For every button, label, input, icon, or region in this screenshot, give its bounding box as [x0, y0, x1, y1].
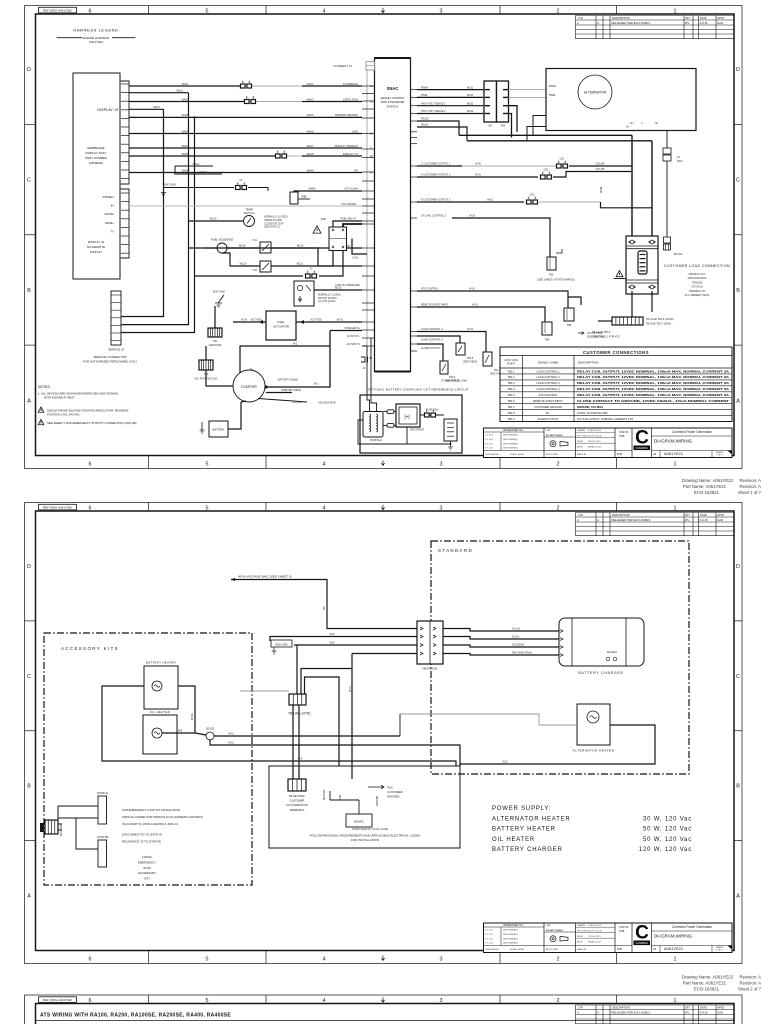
alternator output drops: [631, 135, 633, 236]
svg-text:W-14: W-14: [241, 318, 248, 322]
load control wires: [417, 332, 486, 353]
svg-text:UNPLUG CONNECTOR FROM PL(G) IN: UNPLUG CONNECTOR FROM PL(G) IN HARNESS (…: [122, 815, 203, 819]
svg-text:1: 1: [674, 956, 677, 962]
svg-text:5: 5: [206, 956, 209, 962]
svg-text:R.OTT 5-11-15: R.OTT 5-11-15: [588, 930, 603, 932]
svg-text:(WHEN REQD BY LOCAL CODE): (WHEN REQD BY LOCAL CODE): [352, 828, 388, 831]
svg-text:ENG GND: ENG GND: [164, 183, 176, 187]
svg-text:(SEE TABLE 1 FOR KIT): (SEE TABLE 1 FOR KIT): [592, 336, 620, 339]
svg-text:ENG GND: ENG GND: [213, 290, 225, 294]
svg-text:MEMBRANE: MEMBRANE: [87, 146, 104, 150]
svg-text:1 OF 7: 1 OF 7: [716, 455, 723, 457]
svg-text:B: B: [736, 288, 740, 294]
svg-text:XFMR B+G: XFMR B+G: [370, 439, 382, 442]
svg-text:CAD: CAD: [546, 924, 551, 927]
SNAC right pin strip: [411, 89, 418, 91]
svg-text:3: 3: [440, 506, 443, 512]
svg-text:REMOTE START INPUT: REMOTE START INPUT: [533, 399, 563, 403]
wire W411 stub: [129, 92, 189, 94]
svg-text:2: 2: [557, 9, 560, 15]
svg-text:A: A: [577, 518, 579, 522]
svg-text:APVD: APVD: [717, 16, 724, 20]
stop wires: [58, 806, 98, 818]
svg-text:AC2(-): AC2(-): [512, 636, 520, 639]
svg-text:W97: W97: [346, 246, 351, 248]
svg-text:5: 5: [206, 461, 209, 467]
svg-text:A061YE21: A061YE21: [664, 946, 684, 951]
svg-text:ENG GND: ENG GND: [275, 642, 287, 646]
svg-text:Drawing Name: A061YE22: Drawing Name: A061YE22: [682, 975, 734, 980]
svg-text:WITH INTEGRATED: WITH INTEGRATED: [381, 100, 405, 104]
svg-text:W129: W129: [210, 217, 217, 221]
svg-text:DRAWN: DRAWN: [577, 924, 585, 927]
svg-text:8 CUSTOMER OUTPUT 3: 8 CUSTOMER OUTPUT 3: [421, 199, 451, 202]
svg-text:6AWG/250 MCM: 6AWG/250 MCM: [688, 277, 707, 280]
svg-text:24 LOAD CONTROL 1: 24 LOAD CONTROL 1: [421, 215, 447, 218]
svg-text:TB1-1: TB1-1: [507, 369, 515, 373]
svg-text:A: A: [597, 1010, 599, 1014]
svg-text:PLUG PART IN CONN A SHOWN 4 JO: PLUG PART IN CONN A SHOWN 4 JOIN C4: [122, 822, 178, 826]
svg-text:DIM IN MM [IN]: DIM IN MM [IN]: [503, 934, 518, 936]
svg-text:MADE IN: MADE IN: [577, 453, 587, 456]
wires below fuel relay: [189, 248, 334, 266]
wires heat/bchg to battery charger: [443, 629, 559, 632]
wire W407: [129, 147, 362, 149]
svg-text:RX: RX: [354, 168, 358, 172]
customer load circuit breaker CB1: [626, 236, 658, 294]
svg-text:12VDC, 5A PROTECTED: 12VDC, 5A PROTECTED: [577, 411, 608, 415]
svg-text:ALTERNATOR HEATER: ALTERNATOR HEATER: [573, 749, 615, 753]
svg-text:W10A: W10A: [191, 713, 194, 720]
svg-text:POSITION 175C 240 VAC: POSITION 175C 240 VAC: [47, 412, 80, 416]
wire W413 stub: [129, 108, 164, 110]
svg-text:DFT CHKD: DFT CHKD: [577, 930, 588, 932]
charging circuit wires: [383, 412, 396, 426]
wire W405: [129, 116, 362, 118]
svg-text:DFT: DFT: [685, 513, 690, 517]
svg-text:UNSPECIFIED TOL: UNSPECIFIED TOL: [503, 430, 524, 432]
connector pair: [425, 413, 430, 417]
svg-text:[BCHG]: [BCHG]: [674, 253, 683, 256]
svg-text:CB2: CB2: [544, 169, 549, 172]
svg-text:C: C: [635, 923, 649, 944]
svg-text:CLOSE CONTACT TO GROUND, 12VDC: CLOSE CONTACT TO GROUND, 12VDC SIGNAL, 1…: [577, 399, 729, 403]
svg-text:FOLLOW REGIONAL REQUIREMENTS A: FOLLOW REGIONAL REQUIREMENTS AND APPLICA…: [310, 834, 421, 838]
svg-text:FIELD+: FIELD+: [421, 118, 430, 121]
svg-text:C: C: [736, 674, 740, 680]
svg-text:DATE: DATE: [700, 513, 707, 517]
svg-text:LTR: LTR: [578, 1006, 583, 1010]
ATS control wire: [417, 291, 568, 308]
svg-text:LOW OIL PRESSURE: LOW OIL PRESSURE: [335, 284, 360, 287]
svg-text:W-62: W-62: [487, 199, 493, 202]
svg-text:W-30: W-30: [469, 288, 475, 291]
svg-text:DISPLAY WAKEUP: DISPLAY WAKEUP: [335, 144, 359, 148]
svg-text:FS2: FS2: [253, 269, 258, 272]
svg-text:STATUS:: STATUS:: [619, 926, 629, 929]
svg-text:APVD: APVD: [717, 513, 724, 517]
connector J26/P26 pair: [484, 81, 497, 122]
svg-text:A053E929: A053E929: [89, 161, 103, 165]
svg-text:X.X ±0.5: X.X ±0.5: [485, 943, 494, 945]
svg-text:X.X ±0.5: X.X ±0.5: [485, 443, 494, 445]
svg-text:W401: W401: [182, 82, 189, 86]
svg-text:KIT): KIT): [144, 877, 149, 881]
alt heater wires: [400, 714, 577, 725]
svg-text:Cummins Power Generation: Cummins Power Generation: [672, 925, 712, 929]
svg-text:APVD: APVD: [717, 1006, 724, 1010]
relay K2: [260, 261, 271, 272]
svg-text:BATTERY CHARGER: BATTERY CHARGER: [492, 847, 563, 853]
svg-text:W407: W407: [307, 144, 314, 148]
svg-text:B: B: [27, 784, 31, 790]
svg-text:PWM-: PWM-: [421, 94, 428, 97]
svg-text:CW-165: CW-165: [596, 168, 605, 171]
svg-text:W409: W409: [307, 168, 314, 172]
svg-text:AC CONNECTION: AC CONNECTION: [286, 803, 308, 807]
svg-text:THIRD ANGLE: THIRD ANGLE: [485, 948, 499, 951]
svg-text:(SEE TABLE): (SEE TABLE): [463, 361, 478, 364]
svg-text:(CUSTOMER: (CUSTOMER: [387, 790, 403, 794]
svg-text:50 W, 120 Vac: 50 W, 120 Vac: [643, 837, 692, 843]
service connector J2: [111, 291, 121, 345]
svg-text:A: A: [27, 398, 31, 404]
svg-text:W-2: W-2: [314, 383, 319, 386]
third angle projection symbol: [550, 936, 556, 942]
svg-text:RELAY COIL OUTPUT, 12VDC NOMIN: RELAY COIL OUTPUT, 12VDC NOMINAL, 100mA …: [577, 387, 729, 391]
svg-text:SEE SHEET 2 FOR EMERGENCY STOP: SEE SHEET 2 FOR EMERGENCY STOP KIT CONNE…: [47, 421, 137, 425]
ACCESSORY KITS dashed group box: [44, 633, 252, 885]
customer connections table: [500, 347, 732, 422]
svg-text:HIGH VOLTAGE WAC (SEE SHEET 3): HIGH VOLTAGE WAC (SEE SHEET 3): [238, 575, 292, 579]
svg-text:TB2: TB2: [549, 274, 554, 277]
svg-text:RELEASED PER ECO-163821: RELEASED PER ECO-163821: [612, 21, 651, 25]
svg-text:APVD SIGN: APVD SIGN: [546, 948, 558, 951]
svg-text:DESCRIPTION: DESCRIPTION: [612, 1006, 630, 1010]
svg-text:TB1-2: TB1-2: [507, 375, 515, 379]
svg-text:DIAGRAM,WIRING: DIAGRAM,WIRING: [654, 439, 693, 444]
svg-text:CONNECT J1: CONNECT J1: [333, 64, 352, 68]
svg-text:RELEASED PER ECO-163821: RELEASED PER ECO-163821: [612, 1010, 651, 1014]
svg-text:|÷|: |÷|: [404, 415, 409, 421]
svg-text:SCALE: NONE: SCALE: NONE: [510, 453, 525, 456]
TB-LINE heater tap: [289, 694, 306, 705]
svg-text:5: 5: [206, 9, 209, 15]
sheet number label box: [39, 504, 77, 510]
svg-text:LTR: LTR: [578, 16, 583, 20]
svg-text:RELAY COIL OUTPUT, 12VDC NOMIN: RELAY COIL OUTPUT, 12VDC NOMINAL, 100mA …: [577, 369, 729, 373]
svg-text:PUB: PUB: [617, 453, 622, 456]
svg-text:B+: B+: [111, 204, 115, 208]
svg-text:W405: W405: [307, 113, 314, 117]
svg-text:6-9-15: 6-9-15: [700, 1010, 709, 1014]
svg-text:SERVICE-J2: SERVICE-J2: [108, 348, 125, 352]
svg-text:ECO-163821: ECO-163821: [694, 987, 720, 992]
svg-text:D: D: [736, 564, 740, 570]
svg-text:DATE: DATE: [700, 1006, 707, 1010]
svg-text:W480: W480: [309, 187, 316, 191]
svg-text:40 C AMBIENT (MAX): 40 C AMBIENT (MAX): [685, 294, 710, 297]
svg-text:PUB: PUB: [619, 929, 625, 933]
svg-text:DFT CHKD: DFT CHKD: [577, 435, 588, 437]
connector pair F3: [306, 274, 311, 278]
svg-text:ACT POS: ACT POS: [310, 318, 322, 322]
svg-text:LTR: LTR: [578, 513, 583, 517]
svg-text:AT 0 PSI @ ENG: AT 0 PSI @ ENG: [318, 300, 336, 303]
svg-text:W233: W233: [467, 102, 474, 105]
svg-text:6-9-15: 6-9-15: [700, 21, 709, 25]
svg-text:AC INPUT L: AC INPUT L: [347, 335, 361, 338]
inline fuse F1: [663, 148, 671, 154]
svg-text:TB-LOAD TB1-8 (LOAD): TB-LOAD TB1-8 (LOAD): [646, 318, 674, 321]
svg-text:SCALE: NONE: SCALE: NONE: [510, 948, 525, 951]
gray sense wire: [129, 205, 362, 207]
svg-text:DIM IN MM [IN]: DIM IN MM [IN]: [503, 938, 518, 940]
svg-text:POWERING: POWERING: [343, 82, 358, 86]
svg-text:DATE: DATE: [700, 16, 707, 20]
svg-text:HIGH VOLT SENSE 1: HIGH VOLT SENSE 1: [421, 102, 446, 105]
customer output wires: [417, 165, 462, 167]
display module U1: [73, 73, 120, 279]
svg-text:RELAY COIL OUTPUT, 12VDC NOMIN: RELAY COIL OUTPUT, 12VDC NOMINAL, 100mA …: [577, 393, 729, 397]
svg-text:REF DWG A041Y902: REF DWG A041Y902: [43, 506, 72, 510]
title block: [484, 923, 733, 953]
svg-text:Sheet 2 of 7: Sheet 2 of 7: [738, 987, 762, 992]
svg-text:TB1-8: TB1-8: [507, 411, 515, 415]
svg-text:JPL: JPL: [685, 21, 690, 25]
pressure switch S2: [294, 281, 314, 306]
svg-text:TB1-4: TB1-4: [507, 387, 515, 391]
svg-text:AC1(+): AC1(+): [512, 628, 520, 631]
svg-text:W96: W96: [321, 217, 327, 221]
svg-text:W403: W403: [182, 97, 189, 101]
svg-text:DO NOT SCALE: DO NOT SCALE: [546, 434, 563, 437]
svg-text:STANDARD: STANDARD: [438, 548, 473, 553]
svg-text:W232: W232: [467, 94, 474, 97]
alternator heater HR1: [577, 704, 610, 745]
STOP-B terminal: [98, 840, 107, 867]
svg-text:UNSPECIFIED TOL: UNSPECIFIED TOL: [503, 925, 524, 927]
emergency stop connector plug: [40, 823, 44, 832]
svg-text:DIM IN MM [IN]: DIM IN MM [IN]: [503, 443, 518, 445]
svg-text:[STOP-B]: [STOP-B]: [97, 835, 108, 839]
wire W403: [129, 101, 244, 103]
svg-text:TB1-7: TB1-7: [507, 405, 515, 409]
sheet outer border: [25, 503, 743, 964]
svg-text:RELAY COIL OUTPUT, 12VDC NOMIN: RELAY COIL OUTPUT, 12VDC NOMINAL, 100mA …: [577, 381, 729, 385]
heater loop wiring: [102, 686, 456, 766]
svg-text:HEAT/BCHG: HEAT/BCHG: [423, 667, 438, 671]
svg-text:ALTERNATOR: ALTERNATOR: [584, 91, 607, 95]
heat/bchg terminal block TB2: [417, 621, 443, 664]
svg-text:TEMPER SENDER: TEMPER SENDER: [335, 113, 358, 117]
sheet outer border: [25, 6, 743, 469]
svg-text:120 W, 120 Vac: 120 W, 120 Vac: [639, 847, 692, 853]
svg-text:W231: W231: [467, 86, 474, 89]
svg-text:RELEASED PER ECO-163821: RELEASED PER ECO-163821: [612, 518, 651, 522]
eng gnd p2: [271, 640, 292, 647]
svg-text:W121: W121: [297, 262, 304, 266]
svg-text:W13: W13: [330, 642, 336, 645]
svg-text:GROUND, 15A MAX: GROUND, 15A MAX: [577, 405, 603, 409]
svg-text:2: 2: [557, 956, 560, 962]
svg-text:CUMMINS: CUMMINS: [635, 446, 648, 450]
svg-text:LOAD CONTROL 1: LOAD CONTROL 1: [536, 369, 560, 373]
TB8 positive block: [199, 360, 213, 370]
output relay RL2: [456, 343, 465, 355]
svg-text:A: A: [597, 21, 599, 25]
connector pair: [245, 100, 250, 104]
inline fuse BT2: [664, 237, 671, 243]
svg-text:1: 1: [674, 461, 677, 467]
svg-text:TB-5: TB-5: [387, 786, 393, 790]
svg-text:(ACCESSORY: (ACCESSORY: [138, 871, 157, 875]
svg-text:GROUND: GROUND: [377, 795, 379, 806]
battery charger A1: [559, 618, 644, 666]
svg-text:NO REMOTE: NO REMOTE: [87, 245, 105, 249]
coupler stubs: [387, 410, 394, 414]
transformer T1: [363, 412, 383, 438]
svg-text:A: A: [577, 21, 579, 25]
connector pair: [241, 84, 246, 88]
display connector pin strip upper: [121, 81, 129, 184]
svg-text:CHG SENSE: CHG SENSE: [341, 203, 356, 206]
svg-text:30 W, 120 Vac: 30 W, 120 Vac: [643, 816, 692, 822]
svg-text:THIRD ANGLE: THIRD ANGLE: [485, 453, 499, 456]
splice S10: [206, 732, 214, 740]
svg-text:6: 6: [89, 956, 92, 962]
long vertical wires: [205, 346, 207, 360]
svg-text:LOAD CONTROL 4: LOAD CONTROL 4: [421, 328, 443, 331]
svg-text:FUEL RELAY: FUEL RELAY: [340, 217, 356, 221]
svg-text:DIM IN MM [IN]: DIM IN MM [IN]: [503, 930, 518, 932]
svg-text:Part Name: A061YE21: Part Name: A061YE21: [683, 981, 727, 986]
svg-text:Cummins Power Generation: Cummins Power Generation: [672, 430, 712, 434]
svg-text:6: 6: [89, 461, 92, 467]
svg-text:A3: A3: [653, 452, 657, 456]
alternator flash relay K3: [290, 192, 298, 204]
svg-text:CUSTOMER CONNECTIONS: CUSTOMER CONNECTIONS: [583, 350, 649, 355]
svg-text:12V 3.5A OUTPUT. NOMINAL CURRE: 12V 3.5A OUTPUT. NOMINAL CURRENT 3.5A: [577, 417, 633, 421]
svg-text:BATTERY CABLE: BATTERY CABLE: [278, 379, 298, 382]
svg-text:WITH ENGINE AT REST: WITH ENGINE AT REST: [44, 395, 75, 399]
svg-text:W-31: W-31: [472, 304, 478, 307]
svg-text:W88: W88: [301, 195, 307, 199]
TB pointer note: [578, 332, 584, 335]
svg-text:W403: W403: [307, 97, 314, 101]
svg-text:AC3(GND): AC3(GND): [512, 644, 524, 647]
svg-text:W118: W118: [239, 244, 246, 248]
svg-text:X.X ±0.5: X.X ±0.5: [485, 448, 494, 450]
battery charging circuit box: [360, 395, 462, 453]
TB1 ground block: [208, 328, 222, 337]
svg-text:RELAY COIL OUTPUT, 12VDC NOMIN: RELAY COIL OUTPUT, 12VDC NOMINAL, 100mA …: [577, 375, 729, 379]
svg-text:DIM IN MM [IN]: DIM IN MM [IN]: [503, 448, 518, 450]
svg-text:C: C: [736, 178, 740, 184]
svg-text:OIL HEATER: OIL HEATER: [150, 710, 170, 714]
svg-text:(DC POSITIVE 12V): (DC POSITIVE 12V): [195, 378, 218, 381]
svg-text:RECONNECT J2 TO [STOP-B]: RECONNECT J2 TO [STOP-B]: [122, 840, 161, 844]
svg-text:SIGNAL: SIGNAL: [104, 212, 114, 216]
svg-text:ENGR: ENGR: [577, 936, 584, 938]
svg-text:STARTER CABLE: STARTER CABLE: [281, 389, 302, 392]
svg-text:X.X ±0.5: X.X ±0.5: [485, 435, 494, 437]
svg-text:DESCRIPTION: DESCRIPTION: [612, 513, 630, 517]
svg-text:ACT NEG: ACT NEG: [251, 318, 262, 322]
fuel actuator M1: [266, 311, 296, 340]
svg-text:NORMALLY CLOSED: NORMALLY CLOSED: [318, 294, 341, 297]
svg-text:ALARM OUTPUT: ALARM OUTPUT: [537, 417, 558, 421]
svg-text:DIM IN MM [IN]: DIM IN MM [IN]: [503, 943, 518, 945]
wires to heat/bchg block: [270, 637, 417, 642]
revision history table: [576, 512, 735, 514]
svg-text:A: A: [736, 894, 740, 900]
svg-text:1 CUSTOMER OUTPUT 1: 1 CUSTOMER OUTPUT 1: [421, 163, 451, 166]
svg-text:W401: W401: [307, 82, 314, 86]
svg-text:EMERGENCY: EMERGENCY: [138, 860, 156, 864]
svg-text:DESCRIPTION: DESCRIPTION: [578, 360, 599, 364]
rectifier U3: [396, 404, 420, 427]
svg-text:BATTERY HEATER: BATTERY HEATER: [492, 827, 556, 833]
short label stubs: [175, 165, 213, 167]
svg-text:TB1-5: TB1-5: [507, 393, 515, 397]
wire W408: [129, 155, 275, 157]
svg-text:SHEET: SHEET: [716, 947, 724, 949]
svg-text:LOAD CONTROL 4: LOAD CONTROL 4: [536, 387, 560, 391]
TB5 terminal: [564, 308, 574, 321]
svg-text:1 OF 7: 1 OF 7: [716, 950, 723, 952]
svg-text:TERMINAL TO: TERMINAL TO: [689, 290, 706, 293]
svg-text:APVD: APVD: [577, 940, 583, 943]
svg-text:CHARGER B+: CHARGER B+: [344, 327, 360, 330]
svg-text:A: A: [597, 518, 599, 522]
svg-text:ATS WIRING WITH RA100, RA2: ATS WIRING WITH RA100, RA200, RA100SE, R…: [40, 1013, 231, 1019]
svg-text:X.X ±0.5: X.X ±0.5: [485, 938, 494, 940]
svg-text:W-15: W-15: [337, 318, 344, 322]
svg-text:4 CUSTOMER OUTPUT 2: 4 CUSTOMER OUTPUT 2: [421, 174, 451, 177]
svg-text:FUEL: FUEL: [277, 320, 285, 324]
svg-text:W408: W408: [182, 152, 189, 156]
svg-text:DO NOT SCALE: DO NOT SCALE: [546, 929, 563, 932]
svg-text:SWITCH SHOWN: SWITCH SHOWN: [318, 298, 337, 300]
svg-text:MIN/MAX LUG: MIN/MAX LUG: [689, 273, 706, 276]
svg-text:FUEL SOLENOID: FUEL SOLENOID: [211, 238, 233, 242]
svg-text:ATS CONTROL: ATS CONTROL: [421, 288, 439, 291]
display connector pin strip lower: [121, 189, 129, 258]
svg-text:GAN: GAN: [717, 1010, 723, 1014]
svg-text:Revision: A: Revision: A: [740, 478, 762, 483]
battery cable wires: [266, 331, 330, 388]
svg-text:ECO-163821: ECO-163821: [694, 490, 720, 495]
load control 1 wire to TB2: [417, 217, 452, 219]
svg-text:FOR AUTHORIZED PERSONNEL ONLY: FOR AUTHORIZED PERSONNEL ONLY: [83, 360, 138, 364]
svg-text:CUSTOMER GROUND: CUSTOMER GROUND: [534, 405, 562, 409]
TB2 terminal: [547, 257, 556, 270]
svg-text:1: 1: [674, 506, 677, 512]
customer ground pointer: [368, 785, 384, 789]
svg-text:STOP: STOP: [143, 866, 151, 870]
svg-text:W+: W+: [630, 122, 634, 125]
svg-text:6-9-15: 6-9-15: [700, 518, 709, 522]
svg-text:3: 3: [440, 9, 443, 15]
svg-text:NOTES:: NOTES:: [38, 385, 51, 389]
svg-text:W-29: W-29: [469, 215, 475, 218]
svg-text:PWM-: PWM-: [549, 94, 556, 97]
svg-text:W421: W421: [193, 162, 200, 166]
svg-text:JPL: JPL: [685, 1010, 690, 1014]
svg-text:TB1-6: TB1-6: [507, 399, 515, 403]
svg-text:TB1-9: TB1-9: [507, 417, 515, 421]
